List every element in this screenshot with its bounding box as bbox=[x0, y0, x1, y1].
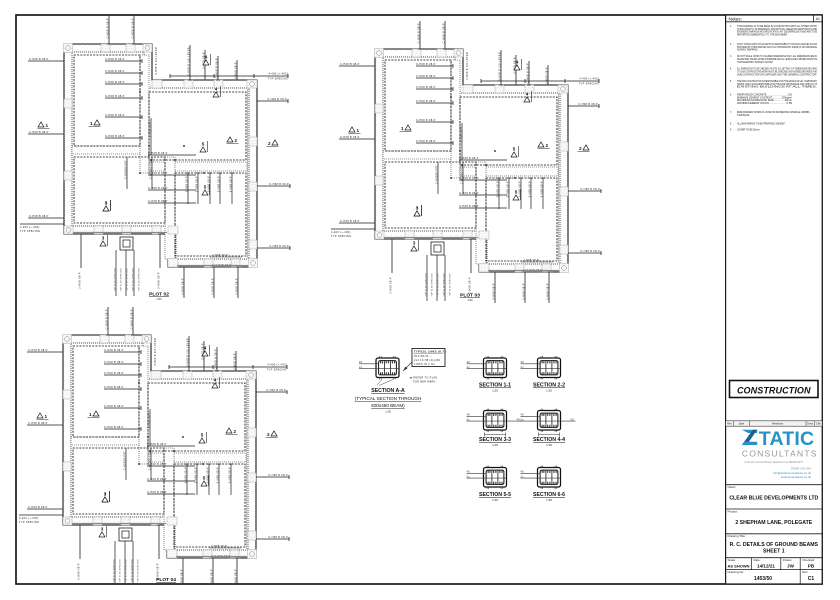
svg-text:Chk: Chk bbox=[816, 422, 821, 426]
svg-text:ALL BAR MARKS TO BE PREFIXED 1: ALL BAR MARKS TO BE PREFIXED 1453/50/*. bbox=[737, 123, 786, 126]
svg-text:JW: JW bbox=[787, 563, 795, 568]
svg-text:Drawing No:: Drawing No: bbox=[728, 570, 745, 574]
svg-text:REPORTED IMMEDIATELY TO THE EN: REPORTED IMMEDIATELY TO THE ENGINEER. bbox=[737, 33, 788, 36]
svg-text:1:50: 1:50 bbox=[467, 298, 473, 302]
svg-text:Notes:: Notes: bbox=[729, 16, 742, 21]
svg-text:LINKS IN 2 No: LINKS IN 2 No bbox=[414, 362, 435, 366]
annotation box bbox=[412, 349, 445, 367]
svg-text:PB: PB bbox=[808, 563, 815, 568]
section 3-3 bbox=[467, 409, 522, 437]
svg-text:AS SHOWN: AS SHOWN bbox=[728, 563, 750, 568]
svg-text:staticconsultants.co.uk: staticconsultants.co.uk bbox=[781, 475, 812, 479]
svg-text:1:50: 1:50 bbox=[156, 297, 162, 301]
svg-text:2x: 2x bbox=[521, 365, 525, 369]
svg-text:40: 40 bbox=[521, 470, 525, 474]
drawing title block bbox=[726, 533, 823, 535]
svg-text:2x: 2x bbox=[359, 365, 363, 369]
notes header bbox=[726, 21, 823, 23]
svg-text:Drwn: Drwn bbox=[807, 422, 814, 426]
svg-text:REINFORCED CONCRETE .........: REINFORCED CONCRETE ....................… bbox=[737, 95, 793, 97]
svg-text:Rev: Rev bbox=[727, 422, 732, 426]
svg-text:600x450 BEAM): 600x450 BEAM) bbox=[371, 403, 405, 408]
svg-text:MILLIMETRES UNLESS NOTED OTHER: MILLIMETRES UNLESS NOTED OTHERWISE AND A… bbox=[737, 58, 817, 61]
svg-text:PLOT 02: PLOT 02 bbox=[149, 292, 169, 298]
svg-text:40: 40 bbox=[521, 360, 525, 364]
svg-text:PROVIDED BY THIRD PARTIES SUCH: PROVIDED BY THIRD PARTIES SUCH AS TOPOGR… bbox=[737, 46, 817, 49]
svg-text:2x: 2x bbox=[467, 474, 471, 478]
svg-text:CONSULTANTS LTD DRAWINGS, AND: CONSULTANTS LTD DRAWINGS, AND WITH ALL R… bbox=[737, 28, 817, 31]
svg-text:Drawing Title:: Drawing Title: bbox=[728, 534, 746, 538]
svg-text:SUB-CONTRACTOR OR SUPPLIER AND: SUB-CONTRACTOR OR SUPPLIER AND THE GENER… bbox=[737, 73, 817, 76]
svg-text:1:25: 1:25 bbox=[546, 389, 552, 393]
svg-text:Scale:: Scale: bbox=[728, 558, 737, 562]
PLOT 04 plan bbox=[19, 307, 289, 589]
svg-text:Checked:: Checked: bbox=[802, 558, 815, 562]
svg-text:2x: 2x bbox=[521, 417, 525, 421]
section A-A bbox=[359, 356, 399, 385]
svg-text:TOPOGRAPHIC SURVEY DATUM.: TOPOGRAPHIC SURVEY DATUM. bbox=[737, 61, 774, 64]
STATIC logo bbox=[742, 430, 757, 433]
svg-text:40: 40 bbox=[521, 413, 525, 417]
svg-text:PLOT 04: PLOT 04 bbox=[156, 577, 176, 583]
svg-text:1453/50: 1453/50 bbox=[754, 576, 772, 582]
svg-text:SURVEY MAPPING.: SURVEY MAPPING. bbox=[737, 49, 759, 52]
svg-text:CONSTRUCTION: CONSTRUCTION bbox=[737, 386, 811, 396]
svg-text:WORKS, AND IS ALSO RESPONSIBLE: WORKS, AND IS ALSO RESPONSIBLE FOR THE S… bbox=[737, 83, 817, 86]
svg-text:CLEAR BLUE DEVELOPMENTS LTD: CLEAR BLUE DEVELOPMENTS LTD bbox=[729, 496, 818, 502]
svg-text:1453/SQ/50.: 1453/SQ/50. bbox=[737, 115, 750, 117]
svg-text:40: 40 bbox=[359, 360, 363, 364]
client block bbox=[726, 484, 823, 486]
svg-text:THE MAIN CONTRACTOR IS RESPONS: THE MAIN CONTRACTOR IS RESPONSIBLE FOR T… bbox=[737, 80, 817, 83]
svg-text:A1: A1 bbox=[816, 17, 820, 21]
svg-text:40: 40 bbox=[571, 417, 575, 421]
svg-text:Client:: Client: bbox=[728, 485, 737, 489]
svg-text:ENGINEERS DRAWINGS AND SPECIFI: ENGINEERS DRAWINGS AND SPECIFICATION. AN… bbox=[737, 31, 817, 34]
section 2-2 bbox=[521, 356, 561, 379]
svg-text:2x2 10 H8 (2)x200: 2x2 10 H8 (2)x200 bbox=[414, 358, 441, 362]
revision table bbox=[726, 421, 823, 426]
svg-text:SECTION A-A: SECTION A-A bbox=[371, 388, 405, 394]
svg-text:STATIC CONSULTANTS LTD ACCEPTS: STATIC CONSULTANTS LTD ACCEPTS NO RESPON… bbox=[737, 43, 817, 46]
svg-text:2x: 2x bbox=[521, 474, 525, 478]
svg-text:C1: C1 bbox=[808, 576, 815, 582]
title block column bbox=[726, 15, 823, 584]
drawing no row bbox=[726, 569, 823, 571]
svg-text:6 Dovermouth Road, Eastbourne: 6 Dovermouth Road, Eastbourne BN20 9PT bbox=[745, 460, 804, 464]
svg-text:TO SUB-CONTRACTORS WORK MUST B: TO SUB-CONTRACTORS WORK MUST BE CHECKED … bbox=[737, 70, 817, 73]
svg-text:2 SHEPHAM LANE, POLEGATE: 2 SHEPHAM LANE, POLEGATE bbox=[735, 520, 812, 526]
svg-text:1:25: 1:25 bbox=[385, 410, 391, 414]
svg-text:MINIMUM CEMENT CONTENT ......: MINIMUM CEMENT CONTENT ............ 325k… bbox=[737, 96, 792, 99]
svg-text:Revisions: Revisions bbox=[772, 422, 784, 426]
section 4-4 bbox=[521, 409, 576, 437]
svg-text:Drawn:: Drawn: bbox=[783, 558, 793, 562]
section 6-6 bbox=[521, 466, 561, 489]
svg-text:ALL DIMENSIONS TO BE CHECKED O: ALL DIMENSIONS TO BE CHECKED ON SITE. AL… bbox=[737, 68, 817, 71]
svg-text:WATER/CEMENT RATIO ..........: WATER/CEMENT RATIO .................... … bbox=[737, 102, 793, 105]
svg-text:Rev:: Rev: bbox=[802, 570, 808, 574]
svg-text:TATIC: TATIC bbox=[759, 428, 815, 450]
PLOT 03 plan bbox=[331, 21, 601, 303]
svg-text:40: 40 bbox=[467, 470, 471, 474]
svg-text:1:25: 1:25 bbox=[492, 498, 498, 502]
svg-text:2x: 2x bbox=[467, 365, 471, 369]
svg-text:FOR B8R M8RK: FOR B8R M8RK bbox=[413, 380, 436, 384]
svg-text:Project:: Project: bbox=[728, 509, 738, 513]
svg-text:H10-08-01 --: H10-08-01 -- bbox=[414, 354, 432, 358]
construction stamp bbox=[730, 381, 819, 398]
svg-text:14/12/21: 14/12/21 bbox=[757, 563, 775, 568]
svg-text:Date: Date bbox=[739, 422, 745, 426]
svg-text:TYPIC8L LINKS (H.T.): TYPIC8L LINKS (H.T.) bbox=[414, 349, 446, 353]
svg-text:SHEET 1: SHEET 1 bbox=[763, 549, 785, 555]
PLOT 02 plan bbox=[20, 16, 290, 298]
svg-text:REINFORCEMENT WORKS IS LISTED: REINFORCEMENT WORKS IS LISTED ON BAR BEN… bbox=[737, 111, 810, 114]
svg-text:THIS DRAWING IS TO BE READ IN: THIS DRAWING IS TO BE READ IN CONJUNCTIO… bbox=[737, 25, 817, 28]
svg-text:1:25: 1:25 bbox=[492, 443, 498, 447]
svg-text:Date:: Date: bbox=[754, 558, 761, 562]
svg-text:PLOT 03: PLOT 03 bbox=[460, 293, 480, 299]
section 5-5 bbox=[467, 466, 507, 489]
svg-text:1:25: 1:25 bbox=[492, 389, 498, 393]
section 1-1 bbox=[467, 356, 507, 379]
svg-text:◆ REFER TO PL8N: ◆ REFER TO PL8N bbox=[410, 376, 437, 380]
svg-text:MAXIMUM AGGREGATE SIZE ......: MAXIMUM AGGREGATE SIZE ............. 20m… bbox=[737, 99, 792, 102]
svg-text:1:25: 1:25 bbox=[546, 443, 552, 447]
svg-text:CONSULTANTS: CONSULTANTS bbox=[742, 449, 818, 459]
scale row bbox=[726, 557, 823, 559]
project block bbox=[726, 508, 823, 510]
svg-text:COVER TO BE 50mm.: COVER TO BE 50mm. bbox=[737, 129, 761, 131]
svg-text:DO NOT SCALE. WORK TO FIGURED: DO NOT SCALE. WORK TO FIGURED DIMENSIONS… bbox=[737, 55, 817, 58]
svg-text:2x: 2x bbox=[467, 417, 471, 421]
svg-text:40: 40 bbox=[467, 413, 471, 417]
arrow bbox=[403, 362, 412, 371]
svg-text:40: 40 bbox=[467, 360, 471, 364]
svg-text:1:25: 1:25 bbox=[546, 498, 552, 502]
svg-text:(TYPICAL SECTION THROUGH: (TYPICAL SECTION THROUGH bbox=[355, 396, 422, 401]
svg-text:EXISTING BUILDINGS AT ALL TIME: EXISTING BUILDINGS AT ALL TIMES. bbox=[737, 86, 818, 89]
svg-text:R. C. DETAILS OF GROUND BEAMS: R. C. DETAILS OF GROUND BEAMS bbox=[730, 542, 819, 548]
